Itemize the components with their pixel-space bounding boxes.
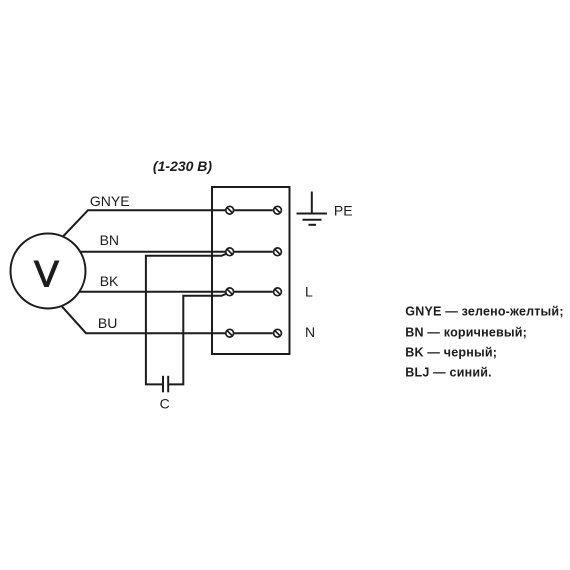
- svg-text:BU: BU: [98, 315, 117, 331]
- terminal screw L-left: [226, 288, 234, 296]
- terminal screw N-right: [274, 329, 282, 337]
- svg-text:BK — черный;: BK — черный;: [405, 345, 497, 359]
- svg-text:BN: BN: [100, 232, 119, 248]
- svg-text:N: N: [305, 324, 315, 340]
- wire row4 jumper: [234, 332, 273, 334]
- wire BN-to-capacitor: [146, 254, 227, 385]
- capacitor C plates: [162, 376, 164, 393]
- terminal screw BN-left: [226, 248, 234, 256]
- svg-text:GNYE — зелено-желтый;: GNYE — зелено-желтый;: [405, 305, 563, 319]
- svg-text:PE: PE: [334, 202, 353, 218]
- svg-text:V: V: [34, 254, 59, 295]
- terminal screw L-right: [274, 288, 282, 296]
- svg-text:BLJ — синий.: BLJ — синий.: [405, 365, 492, 379]
- wire row1 jumper: [234, 209, 273, 211]
- terminal screw PE-right: [274, 206, 282, 214]
- svg-text:BK: BK: [100, 273, 119, 289]
- wire row3 jumper: [234, 291, 273, 293]
- terminal screw BN-right: [274, 248, 282, 256]
- terminal screw N-left: [226, 329, 234, 337]
- wire BU: [62, 306, 225, 333]
- wire BK-to-capacitor: [168, 294, 226, 385]
- wire GNYE: [63, 210, 225, 236]
- svg-text:(1-230 В): (1-230 В): [153, 158, 212, 174]
- ground PE symbol: [311, 192, 313, 214]
- svg-text:L: L: [305, 284, 313, 300]
- svg-text:C: C: [160, 395, 170, 411]
- terminal block X1: [212, 187, 290, 354]
- svg-text:GNYE: GNYE: [90, 193, 130, 209]
- wire BK: [79, 291, 225, 293]
- wire row2 jumper: [234, 251, 273, 253]
- terminal screw PE-left: [226, 206, 234, 214]
- svg-text:BN — коричневый;: BN — коричневый;: [405, 326, 527, 340]
- motor M1 (fan, V symbol): [11, 234, 86, 309]
- wire BN: [80, 251, 225, 253]
